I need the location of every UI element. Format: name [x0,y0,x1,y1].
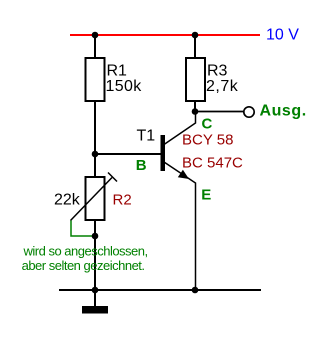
resistor R2 body (potentiometer) [86,177,105,220]
wire: rail to R3 top [194,35,196,59]
svg-text:T1: T1 [137,128,156,145]
svg-text:C: C [202,116,213,133]
resistor R1 body [86,58,105,101]
svg-text:Ausg.: Ausg. [260,103,307,120]
node: emitter/ground rail junction [192,287,199,294]
emitter arrowhead [178,170,189,179]
node: collector/output junction [192,108,199,115]
wire: green wiper connection hook [71,221,95,237]
node: wiper/bottom junction [92,233,99,240]
wire: base node down to R2 top [94,154,96,178]
svg-text:22k: 22k [54,192,81,209]
node: rail/R3 junction [192,32,199,39]
wire: emitter lead [164,162,196,290]
ground symbol [82,306,108,314]
svg-text:R2: R2 [113,192,132,209]
wire: R1 bottom to base node [94,101,96,155]
svg-text:wird so angeschlossen,: wird so angeschlossen, [23,244,148,259]
transistor T1 base bar [161,135,166,171]
potentiometer R2 wiper end tick [108,173,117,182]
svg-text:BCY 58: BCY 58 [182,132,233,149]
wire: R3 bottom to collector node [194,101,196,113]
wire: output lead [195,111,245,113]
wire: base node to transistor base [95,153,161,155]
wire: R2 bottom to ground rail [94,220,96,291]
wire: stub to ground symbol [94,290,96,306]
svg-text:150k: 150k [106,78,143,95]
svg-text:10 V: 10 V [266,27,299,44]
node: rail/R1 junction [92,32,99,39]
svg-text:R1: R1 [107,63,128,80]
resistor R3 body [186,58,205,101]
wire: ground rail [59,289,261,291]
svg-text:BC 547C: BC 547C [182,155,243,172]
wire: +10V supply rail (red) [70,34,260,36]
svg-text:R3: R3 [207,63,228,80]
wire: rail to R1 top [94,35,96,59]
node: ground rail left junction [92,287,99,294]
output terminal circle [244,107,254,117]
svg-text:E: E [201,187,211,204]
svg-text:B: B [136,157,147,174]
svg-text:2,7k: 2,7k [206,78,239,95]
wire: collector lead into transistor [164,112,196,145]
potentiometer R2 wiper diagonal [71,178,113,221]
svg-text:aber selten gezeichnet.: aber selten gezeichnet. [22,258,145,273]
node: base junction [92,151,99,158]
